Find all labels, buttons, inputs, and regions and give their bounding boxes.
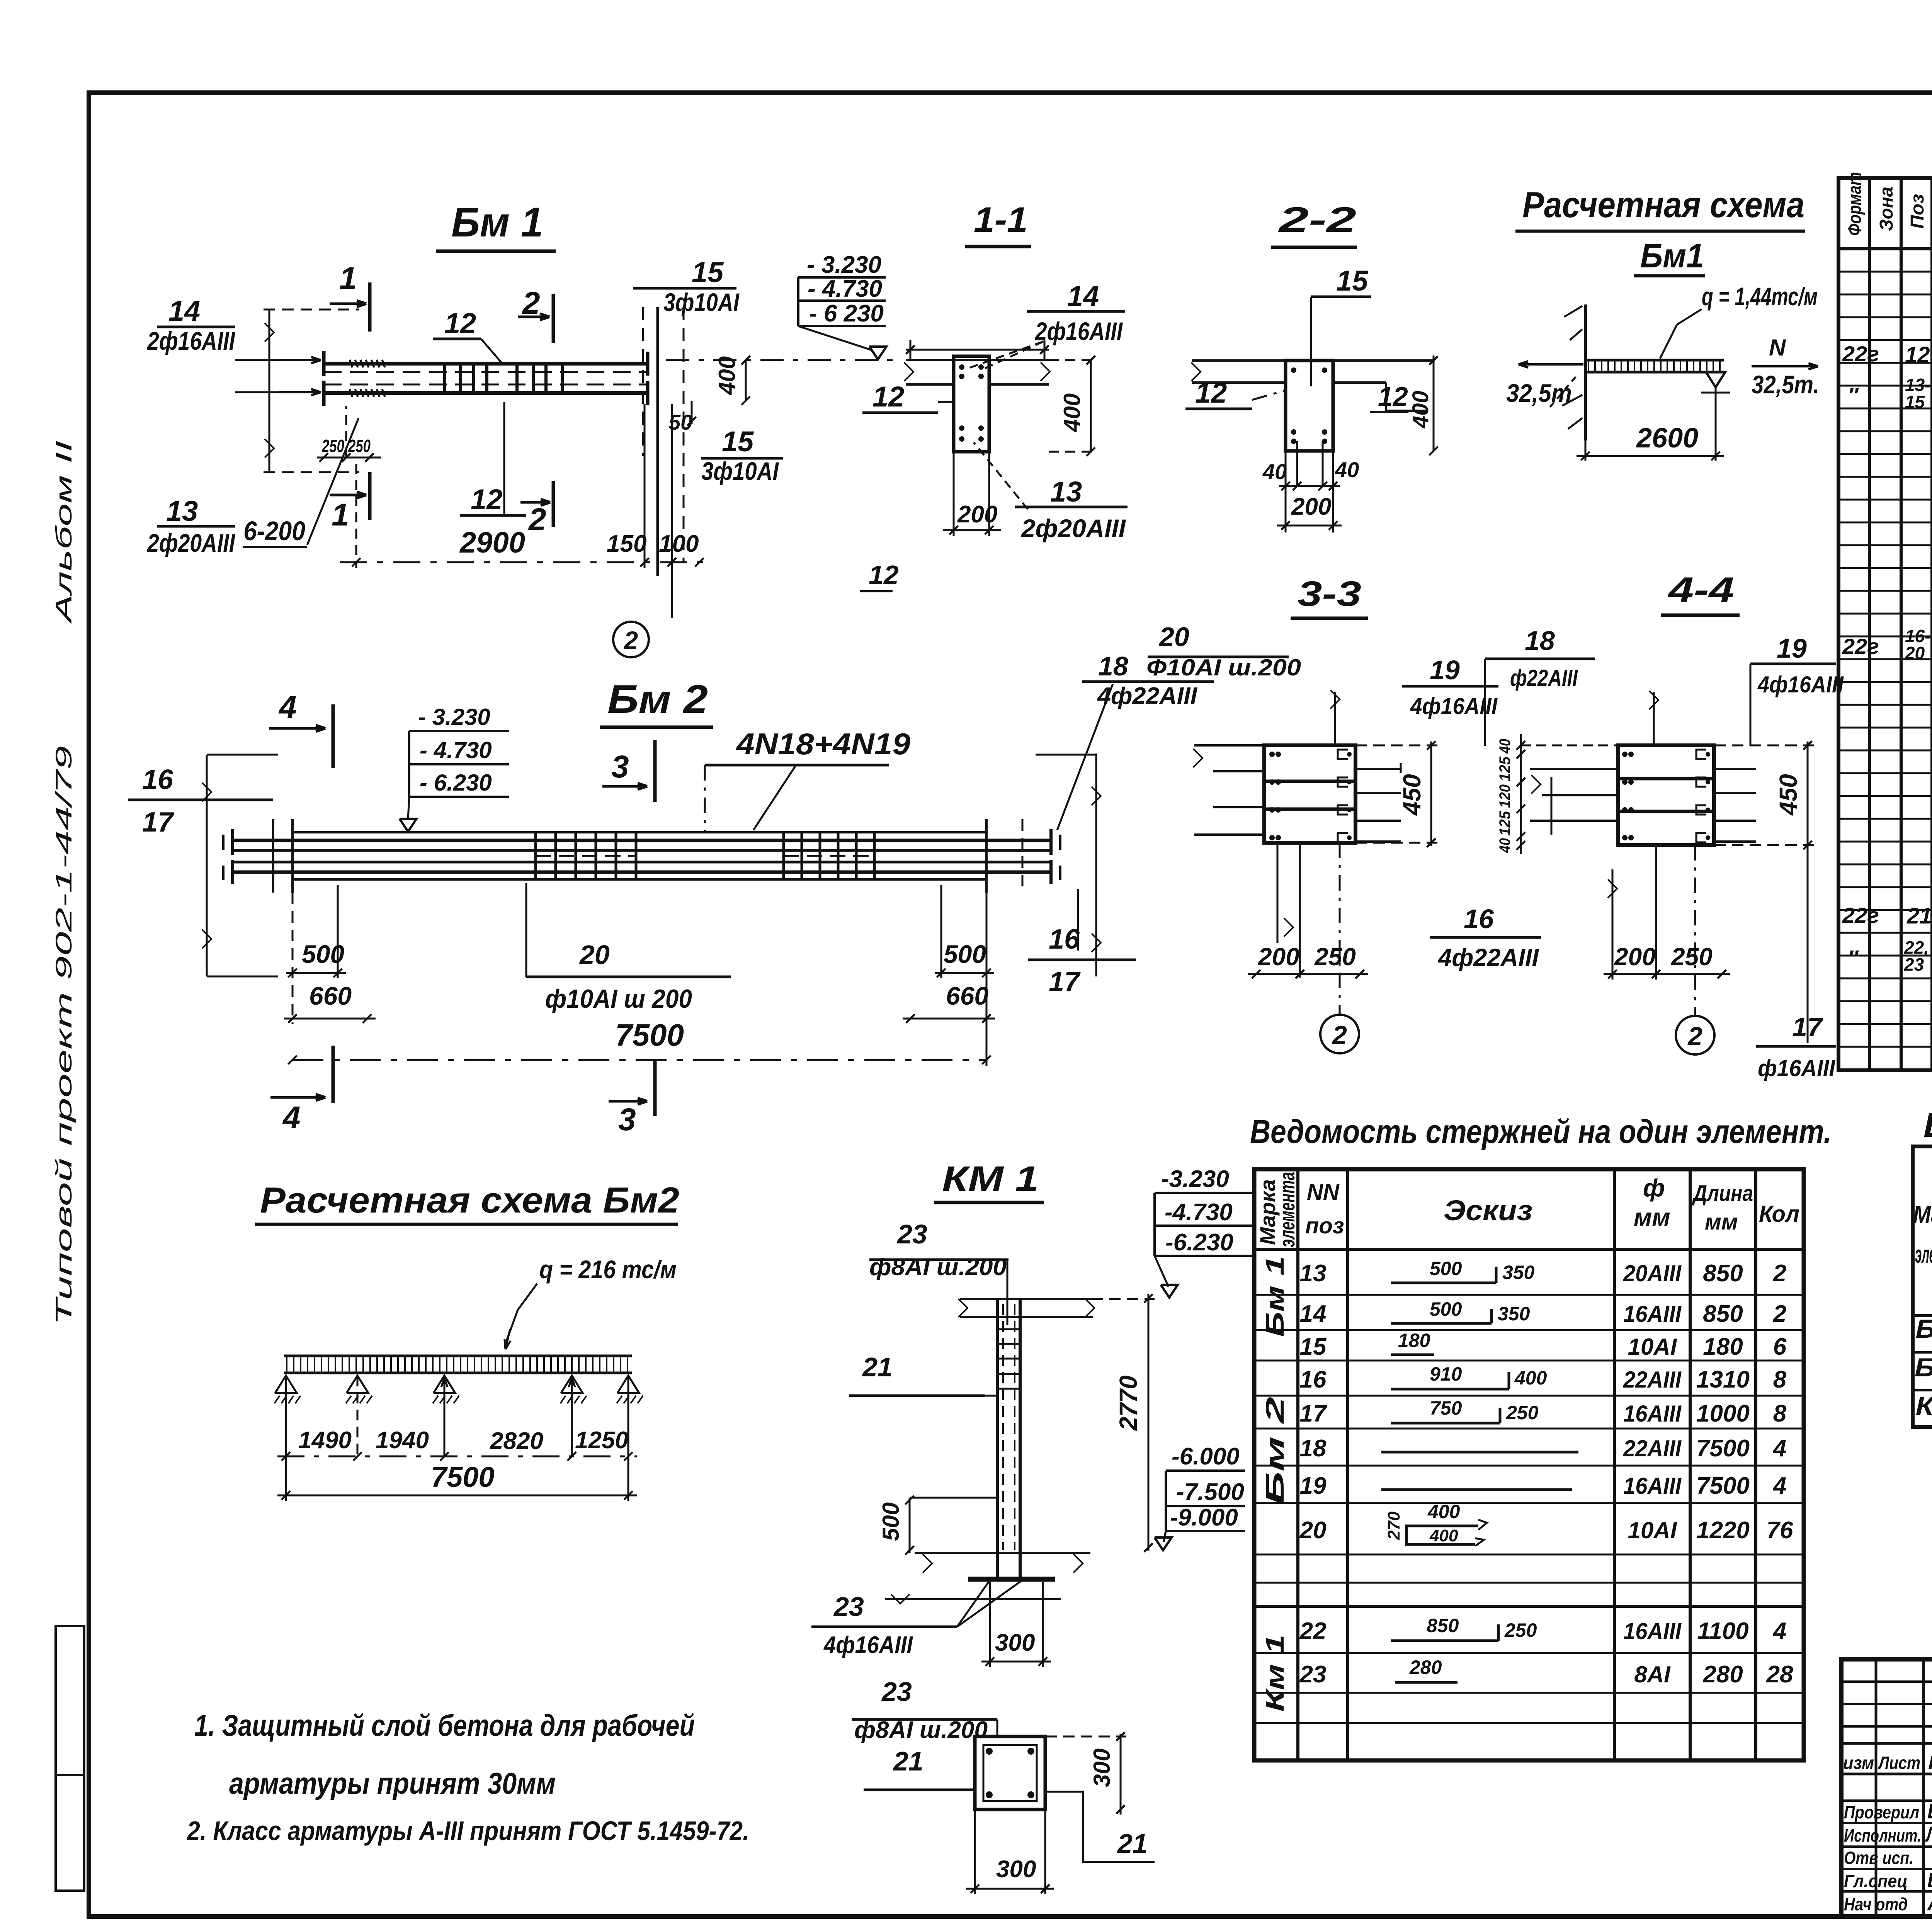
svg-text:Ведомость стержней на один эле: Ведомость стержней на один элемент. bbox=[1250, 1113, 1832, 1150]
column KM1: column shaft bbox=[996, 1299, 999, 1553]
svg-text:20: 20 bbox=[1299, 1517, 1327, 1544]
svg-text:Альбом II: Альбом II bbox=[51, 440, 77, 624]
svg-text:1940: 1940 bbox=[376, 1427, 429, 1454]
svg-text:16АIII: 16АIII bbox=[1623, 1401, 1682, 1427]
svg-text:15: 15 bbox=[1905, 392, 1925, 412]
svg-text:Эскиз: Эскиз bbox=[1444, 1194, 1532, 1226]
svg-text:300: 300 bbox=[1089, 1748, 1115, 1787]
svg-text:4: 4 bbox=[1772, 1618, 1786, 1645]
load scheme Bm1: left reaction arrow 32,5t bbox=[1519, 363, 1583, 366]
svg-text:Литвиненко: Литвиненко bbox=[1925, 1823, 1932, 1846]
svg-text:200: 200 bbox=[1614, 943, 1656, 971]
column KM1 cross-section: leader to label 21 right bbox=[1045, 1792, 1155, 1862]
svg-text:3: 3 bbox=[611, 749, 629, 784]
svg-text:40: 40 bbox=[1335, 457, 1359, 482]
svg-text:элемента: элемента bbox=[1915, 1240, 1932, 1268]
svg-text:N докум.: N докум. bbox=[1928, 1752, 1932, 1773]
beam Bm2: left extent line bbox=[206, 755, 208, 976]
bar list table: sketch row 19 bbox=[1381, 1488, 1572, 1491]
svg-text:22АIII: 22АIII bbox=[1623, 1367, 1682, 1393]
section 3-3: dim 200 250 bbox=[1248, 973, 1368, 975]
svg-text:17: 17 bbox=[1049, 966, 1081, 997]
bar list table: sketch row 16 bbox=[1391, 1388, 1509, 1391]
steel summary table: outer frame bbox=[1913, 1146, 1932, 1427]
section 3-3: middle bars bbox=[1264, 780, 1355, 783]
svg-text:23: 23 bbox=[1299, 1661, 1327, 1688]
svg-text:32,5т.: 32,5т. bbox=[1752, 370, 1819, 399]
svg-text:17: 17 bbox=[142, 807, 174, 838]
svg-text:12: 12 bbox=[1378, 381, 1408, 412]
svg-text:ф8АI ш.200: ф8АI ш.200 bbox=[869, 1254, 1007, 1281]
svg-text:Нач отд: Нач отд bbox=[1844, 1894, 1908, 1914]
svg-text:250: 250 bbox=[1314, 943, 1356, 971]
svg-text:Бм 1: Бм 1 bbox=[1260, 1256, 1289, 1337]
beam Bm2: beam soffit line bbox=[293, 878, 986, 881]
svg-text:13: 13 bbox=[1300, 1260, 1327, 1287]
load scheme Bm1: dim 2600 bbox=[1715, 387, 1717, 461]
svg-text:10АI: 10АI bbox=[1628, 1517, 1677, 1543]
svg-text:850: 850 bbox=[1703, 1301, 1743, 1327]
svg-text:″: ″ bbox=[1848, 946, 1859, 970]
column KM1 cross-section: dim 300 right bbox=[1120, 1734, 1122, 1815]
svg-text:Бм2: Бм2 bbox=[1915, 1353, 1932, 1382]
svg-text:22г: 22г bbox=[1842, 634, 1879, 658]
svg-text:4-4: 4-4 bbox=[1667, 570, 1734, 610]
svg-text:2ф16АIII: 2ф16АIII bbox=[146, 327, 235, 355]
bar list table: sketch row 18 bbox=[1381, 1451, 1578, 1454]
svg-text:12: 12 bbox=[872, 381, 904, 413]
svg-text:- 6 230: - 6 230 bbox=[809, 300, 884, 327]
svg-text:6: 6 bbox=[1773, 1333, 1787, 1360]
svg-text:Бм1: Бм1 bbox=[1916, 1314, 1932, 1344]
svg-text:400: 400 bbox=[1059, 393, 1085, 432]
svg-text:19: 19 bbox=[1300, 1473, 1327, 1499]
load scheme Bm2: span dims 1490 1940 2820 1250 bbox=[277, 1456, 637, 1458]
svg-text:660: 660 bbox=[946, 981, 988, 1010]
svg-text:8: 8 bbox=[1773, 1400, 1787, 1427]
svg-text:1: 1 bbox=[339, 261, 357, 296]
column KM1 cross-section: rebar dots bbox=[986, 1748, 993, 1755]
svg-text:Арсенов: Арсенов bbox=[1927, 1892, 1932, 1915]
load scheme Bm2: supports bbox=[275, 1376, 297, 1393]
svg-text:ф10АI ш 200: ф10АI ш 200 bbox=[545, 984, 692, 1014]
svg-text:180: 180 bbox=[1398, 1330, 1430, 1351]
column KM1: beam at top bbox=[960, 1298, 1093, 1300]
svg-text:14: 14 bbox=[1067, 280, 1099, 312]
beam Bm2: slab top line bbox=[293, 831, 986, 833]
svg-text:400: 400 bbox=[1429, 1526, 1458, 1545]
svg-text:2: 2 bbox=[522, 286, 540, 321]
svg-text:ф16АIII: ф16АIII bbox=[1758, 1055, 1835, 1081]
svg-text:270: 270 bbox=[1384, 1511, 1403, 1540]
section 4-4: dim 200 250 bbox=[1604, 973, 1730, 975]
svg-text:18: 18 bbox=[1098, 651, 1128, 681]
svg-text:арматуры принят 30мм: арматуры принят 30мм bbox=[229, 1766, 556, 1800]
svg-text:200: 200 bbox=[1258, 943, 1299, 971]
beam Bm1: node circle 2 bbox=[613, 622, 649, 657]
svg-text:3ф10АI: 3ф10АI bbox=[701, 457, 779, 485]
beam Bm1: bottom rebar bar pos 13 bbox=[324, 391, 648, 395]
svg-text:13: 13 bbox=[166, 495, 198, 527]
svg-text:15: 15 bbox=[692, 256, 724, 288]
load scheme Bm1: wall line bbox=[1584, 304, 1587, 440]
beam Bm2: bar end anchors bbox=[231, 829, 234, 855]
svg-text:Км 1: Км 1 bbox=[1260, 1634, 1289, 1712]
svg-text:20: 20 bbox=[1158, 622, 1189, 652]
svg-text:16АIII: 16АIII bbox=[1623, 1618, 1682, 1644]
svg-text:2: 2 bbox=[623, 626, 638, 655]
section 4-4: beam outline bbox=[1618, 745, 1714, 845]
svg-text:19: 19 bbox=[1777, 633, 1807, 663]
svg-text:400: 400 bbox=[1427, 1501, 1460, 1522]
svg-text:6-200: 6-200 bbox=[243, 516, 305, 546]
column KM1: dim 500 left bbox=[909, 1498, 911, 1553]
svg-text:- 4.730: - 4.730 bbox=[420, 737, 492, 763]
svg-text:-3.230: -3.230 bbox=[1161, 1166, 1229, 1192]
load scheme Bm1: pinned support bbox=[1706, 372, 1725, 387]
svg-text:Бм 2: Бм 2 bbox=[607, 677, 708, 722]
section 4-4: middle bars bbox=[1618, 777, 1714, 781]
svg-text:Лист: Лист bbox=[1878, 1753, 1920, 1773]
section 3-3: cut flag top bbox=[1334, 692, 1336, 745]
svg-text:7500: 7500 bbox=[1696, 1435, 1750, 1462]
svg-text:250: 250 bbox=[348, 436, 371, 456]
column KM1 cross-section: outer outline bbox=[975, 1736, 1045, 1810]
svg-text:16: 16 bbox=[1300, 1366, 1327, 1393]
svg-text:1. Защитный слой бетона для: 1. Защитный слой бетона для рабочей bbox=[194, 1708, 695, 1742]
section 3-3: node circle 2 bbox=[1339, 843, 1341, 1014]
beam Bm1: stirrup group pos 12 left bbox=[443, 364, 446, 393]
svg-text:16: 16 bbox=[1049, 924, 1080, 955]
section 1-1: bottom rebar dots pos 13 bbox=[959, 425, 964, 431]
svg-text:Бм 2: Бм 2 bbox=[1260, 1396, 1289, 1505]
svg-text:350: 350 bbox=[1498, 1303, 1530, 1325]
svg-text:2ф20АIII: 2ф20АIII bbox=[146, 529, 235, 557]
svg-text:450: 450 bbox=[1774, 774, 1802, 816]
svg-text:750: 750 bbox=[1430, 1397, 1462, 1419]
svg-text:16: 16 bbox=[142, 764, 173, 795]
section 2-2: slab edges bbox=[1192, 359, 1286, 362]
svg-text:ф8АI ш.200: ф8АI ш.200 bbox=[854, 1717, 988, 1743]
svg-text:28: 28 bbox=[1766, 1661, 1793, 1688]
beam Bm2: stirrup group pos 20 right bbox=[782, 832, 785, 879]
svg-text:21: 21 bbox=[1117, 1828, 1148, 1859]
svg-text:2: 2 bbox=[1332, 1020, 1347, 1050]
left margin stamp box bbox=[56, 1626, 84, 1891]
svg-text:200: 200 bbox=[957, 501, 997, 528]
svg-text:2: 2 bbox=[1773, 1260, 1786, 1287]
svg-text:-6.000: -6.000 bbox=[1172, 1443, 1240, 1470]
svg-text:2820: 2820 bbox=[490, 1428, 543, 1454]
svg-text:Бм1: Бм1 bbox=[1640, 236, 1704, 275]
svg-text:250: 250 bbox=[1506, 1402, 1539, 1423]
svg-text:250: 250 bbox=[321, 436, 344, 456]
svg-text:20: 20 bbox=[1905, 643, 1925, 663]
column KM1: dim 2770 right bbox=[1148, 1294, 1150, 1551]
bar list table: sketch row 14 bbox=[1391, 1322, 1492, 1325]
svg-text:20АIII: 20АIII bbox=[1623, 1260, 1682, 1286]
svg-text:Марка: Марка bbox=[1913, 1201, 1932, 1228]
svg-text:125: 125 bbox=[1497, 756, 1514, 781]
svg-text:1310: 1310 bbox=[1696, 1366, 1750, 1393]
svg-text:4: 4 bbox=[1772, 1473, 1786, 1499]
beam Bm2: support lines left bbox=[272, 819, 274, 893]
svg-text:-9.000: -9.000 bbox=[1170, 1504, 1238, 1531]
svg-text:23: 23 bbox=[1904, 954, 1924, 975]
svg-text:1-1: 1-1 bbox=[974, 200, 1028, 240]
column KM1 cross-section: stirrup bbox=[983, 1745, 1037, 1801]
svg-text:7500: 7500 bbox=[431, 1461, 495, 1493]
svg-text:элемента: элемента bbox=[1275, 1172, 1299, 1247]
specification table: grid bbox=[1838, 178, 1932, 1070]
svg-text:КМ 1: КМ 1 bbox=[942, 1159, 1039, 1199]
svg-text:14: 14 bbox=[168, 295, 200, 327]
svg-text:мм: мм bbox=[1705, 1209, 1738, 1235]
svg-text:300: 300 bbox=[996, 1856, 1036, 1883]
svg-text:500: 500 bbox=[1430, 1258, 1462, 1279]
svg-text:Ф10АI ш.200: Ф10АI ш.200 bbox=[1146, 655, 1301, 680]
svg-text:22: 22 bbox=[1299, 1618, 1327, 1645]
svg-text:20: 20 bbox=[579, 940, 610, 970]
svg-text:2ф20АIII: 2ф20АIII bbox=[1020, 514, 1126, 543]
section 4-4: dim 450 right bbox=[1807, 742, 1809, 847]
svg-text:350: 350 bbox=[1502, 1262, 1535, 1283]
beam Bm2: stirrup group pos 20 left bbox=[534, 832, 537, 879]
svg-text:12: 12 bbox=[1905, 342, 1930, 367]
svg-text:8: 8 bbox=[1773, 1366, 1787, 1393]
svg-text:2770: 2770 bbox=[1114, 1376, 1142, 1431]
svg-text:2ф16АIII: 2ф16АIII bbox=[1034, 317, 1123, 345]
svg-text:14: 14 bbox=[1300, 1301, 1327, 1327]
section 2-2: beam outline bbox=[1286, 361, 1333, 451]
svg-text:250: 250 bbox=[1504, 1619, 1537, 1641]
svg-text:Проверил: Проверил bbox=[1844, 1802, 1919, 1822]
section 3-3: hook marks and dots inside bbox=[1269, 752, 1275, 757]
svg-text:Отв исп.: Отв исп. bbox=[1844, 1848, 1913, 1868]
svg-text:Длина: Длина bbox=[1692, 1181, 1753, 1206]
svg-text:NN: NN bbox=[1307, 1180, 1340, 1205]
section 2-2: dim 400 right bbox=[1433, 355, 1435, 451]
svg-text:-6.230: -6.230 bbox=[1165, 1229, 1233, 1256]
column KM1: ground break line bbox=[885, 1598, 1061, 1600]
svg-text:40: 40 bbox=[1262, 459, 1287, 484]
section 4-4: wall lines left bbox=[1530, 768, 1618, 770]
svg-text:22г: 22г bbox=[1842, 342, 1879, 366]
svg-text:Кол: Кол bbox=[1759, 1201, 1799, 1227]
beam Bm1: bottom dimension chain 2900 150 100 bbox=[340, 561, 707, 563]
svg-text:4: 4 bbox=[278, 690, 297, 725]
svg-text:180: 180 bbox=[1703, 1333, 1743, 1360]
svg-text:″: ″ bbox=[1848, 383, 1859, 407]
svg-text:2: 2 bbox=[528, 502, 546, 537]
section 3-3: rebar stubs right bbox=[1355, 768, 1401, 770]
beam Bm2: support lines right bbox=[985, 819, 988, 893]
section 2-2: rebar dots bbox=[1291, 367, 1296, 373]
svg-text:21: 21 bbox=[893, 1746, 923, 1776]
beam Bm1: datum level line with nabla bbox=[869, 347, 886, 359]
svg-text:Км1: Км1 bbox=[1916, 1391, 1932, 1421]
svg-text:Типовой проект 902-1-44/79: Типовой проект 902-1-44/79 bbox=[51, 746, 77, 1325]
svg-text:21: 21 bbox=[1906, 903, 1932, 929]
section 4-4: hooks and dots inside bbox=[1622, 752, 1628, 757]
svg-text:250: 250 bbox=[1671, 943, 1713, 971]
svg-text:76: 76 bbox=[1767, 1517, 1793, 1544]
svg-text:500: 500 bbox=[944, 940, 986, 968]
beam Bm1: formwork dashed lines bbox=[264, 309, 359, 311]
svg-text:22г: 22г bbox=[1842, 903, 1879, 927]
title block: outer frame bbox=[1841, 1659, 1932, 1917]
svg-text:200: 200 bbox=[1291, 493, 1331, 520]
load scheme Bm2: distributed load band bbox=[284, 1355, 632, 1357]
column KM1: stirrup rungs bbox=[997, 1328, 1020, 1330]
svg-text:16АIII: 16АIII bbox=[1623, 1301, 1682, 1327]
svg-text:мм: мм bbox=[1634, 1203, 1670, 1231]
beam Bm1: right wall lines bbox=[642, 307, 644, 456]
svg-text:Выборка стали на один элемент,: Выборка стали на один элемент,кг. bbox=[1923, 1106, 1932, 1144]
bar list table: sketch row 17 bbox=[1391, 1422, 1500, 1425]
svg-text:поз: поз bbox=[1305, 1213, 1344, 1238]
svg-text:4ф16АIII: 4ф16АIII bbox=[823, 1632, 913, 1658]
section 1-1: beam outline bbox=[954, 356, 989, 452]
svg-text:2-2: 2-2 bbox=[1278, 200, 1356, 240]
svg-text:4ф22АIII: 4ф22АIII bbox=[1437, 944, 1539, 971]
svg-text:15: 15 bbox=[722, 425, 754, 457]
svg-text:7500: 7500 bbox=[1696, 1473, 1750, 1499]
svg-text:22АIII: 22АIII bbox=[1623, 1435, 1682, 1461]
svg-text:2. Класс арматуры А-III прин: 2. Класс арматуры А-III принят ГОСТ 5.14… bbox=[186, 1816, 749, 1846]
svg-text:500: 500 bbox=[1430, 1298, 1462, 1320]
svg-text:1100: 1100 bbox=[1697, 1618, 1748, 1645]
section 2-2: dims 40 40 bottom bbox=[1296, 441, 1298, 486]
svg-text:23: 23 bbox=[833, 1592, 864, 1622]
section 1-1: dim 400 right bbox=[1090, 360, 1092, 452]
svg-text:4: 4 bbox=[1772, 1435, 1786, 1462]
svg-text:3ф10АI: 3ф10АI bbox=[663, 288, 740, 316]
section 1-1: top rebar dots pos 14 bbox=[959, 364, 964, 370]
bar list table: grid bbox=[1254, 1169, 1804, 1760]
svg-text:4: 4 bbox=[282, 1100, 301, 1135]
svg-text:23: 23 bbox=[896, 1219, 927, 1249]
svg-text:1: 1 bbox=[332, 497, 349, 532]
beam Bm1: dim 400 right bbox=[745, 360, 747, 401]
beam Bm2: right extent line bbox=[1095, 753, 1097, 976]
svg-text:2900: 2900 bbox=[459, 526, 525, 559]
svg-text:3: 3 bbox=[618, 1102, 636, 1137]
section 1-1: top dim line bbox=[906, 349, 1049, 351]
section 4-4: node circle 2 bbox=[1694, 845, 1696, 1015]
column KM1: base plate pos 23 bbox=[968, 1577, 1055, 1582]
svg-text:10АI: 10АI bbox=[1628, 1334, 1677, 1360]
section 4-4: left dim chain 40 125 120 125 40 bbox=[1520, 734, 1522, 854]
bar list table: sketch row 22 bbox=[1391, 1639, 1498, 1642]
beam Bm2: longitudinal rebar lines pos 18 19 bbox=[233, 839, 1051, 842]
svg-text:7500: 7500 bbox=[615, 1018, 684, 1052]
svg-text:23: 23 bbox=[881, 1677, 912, 1707]
svg-text:2: 2 bbox=[1773, 1301, 1786, 1327]
bar list table: sketch row 13 bbox=[1391, 1282, 1496, 1284]
svg-text:-4.730: -4.730 bbox=[1165, 1199, 1233, 1226]
svg-text:3-3: 3-3 bbox=[1298, 574, 1361, 614]
section 4-4: rebar stubs right bbox=[1714, 768, 1756, 770]
svg-text:15: 15 bbox=[1300, 1333, 1327, 1360]
svg-text:Исполнит.: Исполнит. bbox=[1844, 1825, 1921, 1845]
svg-text:19: 19 bbox=[1430, 655, 1460, 685]
svg-text:Зона: Зона bbox=[1876, 187, 1897, 231]
section 1-1: slab edges bbox=[906, 359, 1049, 361]
column KM1: footing top line bbox=[915, 1552, 1090, 1554]
svg-text:17: 17 bbox=[1300, 1400, 1327, 1427]
svg-text:- 3.230: - 3.230 bbox=[418, 704, 490, 730]
svg-text:450: 450 bbox=[1398, 774, 1426, 816]
svg-text:21: 21 bbox=[862, 1352, 893, 1382]
svg-text:ф: ф bbox=[1643, 1174, 1665, 1202]
svg-text:1490: 1490 bbox=[298, 1427, 352, 1454]
svg-text:Поз: Поз bbox=[1907, 194, 1928, 229]
svg-text:400: 400 bbox=[1514, 1367, 1547, 1389]
svg-text:12: 12 bbox=[444, 307, 476, 339]
svg-text:Формат: Формат bbox=[1845, 172, 1865, 236]
svg-text:400: 400 bbox=[714, 356, 740, 395]
svg-text:13: 13 bbox=[1050, 476, 1082, 508]
svg-text:4ф16АIII: 4ф16АIII bbox=[1757, 672, 1844, 697]
svg-text:4N18+4N19: 4N18+4N19 bbox=[736, 727, 911, 761]
svg-text:Расчетная схема: Расчетная схема bbox=[1522, 184, 1804, 225]
svg-text:1220: 1220 bbox=[1696, 1517, 1750, 1544]
svg-text:40: 40 bbox=[1497, 838, 1514, 853]
svg-text:300: 300 bbox=[995, 1629, 1035, 1656]
svg-text:Власенко: Власенко bbox=[1927, 1869, 1932, 1892]
svg-text:16: 16 bbox=[1464, 904, 1494, 934]
svg-text:15: 15 bbox=[1336, 265, 1369, 297]
svg-text:280: 280 bbox=[1702, 1661, 1743, 1688]
svg-text:280: 280 bbox=[1409, 1656, 1442, 1678]
svg-text:16АIII: 16АIII bbox=[1623, 1473, 1682, 1499]
svg-text:- 4.730: - 4.730 bbox=[808, 276, 882, 302]
beam Bm1: top rebar bar pos 14 bbox=[324, 362, 648, 366]
svg-text:32,5т: 32,5т bbox=[1506, 379, 1572, 407]
svg-text:660: 660 bbox=[309, 981, 352, 1010]
svg-text:Гл.спец: Гл.спец bbox=[1844, 1871, 1908, 1891]
svg-text:2600: 2600 bbox=[1636, 423, 1698, 454]
section 3-3: dim 450 right bbox=[1430, 742, 1432, 846]
svg-text:12: 12 bbox=[471, 483, 502, 515]
svg-text:q = 1,44тс/м: q = 1,44тс/м bbox=[1702, 282, 1818, 311]
section 3-3: beam outline bbox=[1264, 745, 1355, 843]
load scheme Bm1: distributed load band q=1.44 bbox=[1585, 359, 1724, 362]
svg-text:- 6.230: - 6.230 bbox=[420, 770, 492, 796]
svg-text:1250: 1250 bbox=[575, 1427, 628, 1454]
section 3-3: verticals below bbox=[1299, 843, 1301, 978]
svg-text:2: 2 bbox=[1687, 1022, 1702, 1051]
svg-text:100: 100 bbox=[659, 531, 699, 557]
beam Bm1: anchorage coils on bars bbox=[350, 360, 352, 367]
svg-text:910: 910 bbox=[1430, 1363, 1462, 1385]
beam Bm1: stirrup group pos 12 right bbox=[515, 364, 519, 393]
svg-text:40: 40 bbox=[1497, 739, 1514, 754]
column KM1: anchor bars into footing bbox=[996, 1553, 999, 1578]
svg-text:400: 400 bbox=[1408, 391, 1433, 429]
svg-text:120: 120 bbox=[1497, 784, 1514, 808]
svg-text:-7.500: -7.500 bbox=[1176, 1479, 1244, 1505]
svg-text:8АI: 8АI bbox=[1634, 1662, 1671, 1687]
section 4-4: cut flag top bbox=[1653, 692, 1655, 745]
svg-text:Бродская: Бродская bbox=[1927, 1800, 1932, 1823]
svg-text:12: 12 bbox=[1195, 377, 1227, 409]
svg-text:500: 500 bbox=[878, 1502, 904, 1541]
svg-text:18: 18 bbox=[1300, 1435, 1327, 1462]
svg-text:850: 850 bbox=[1427, 1615, 1459, 1636]
svg-text:N: N bbox=[1769, 335, 1786, 361]
